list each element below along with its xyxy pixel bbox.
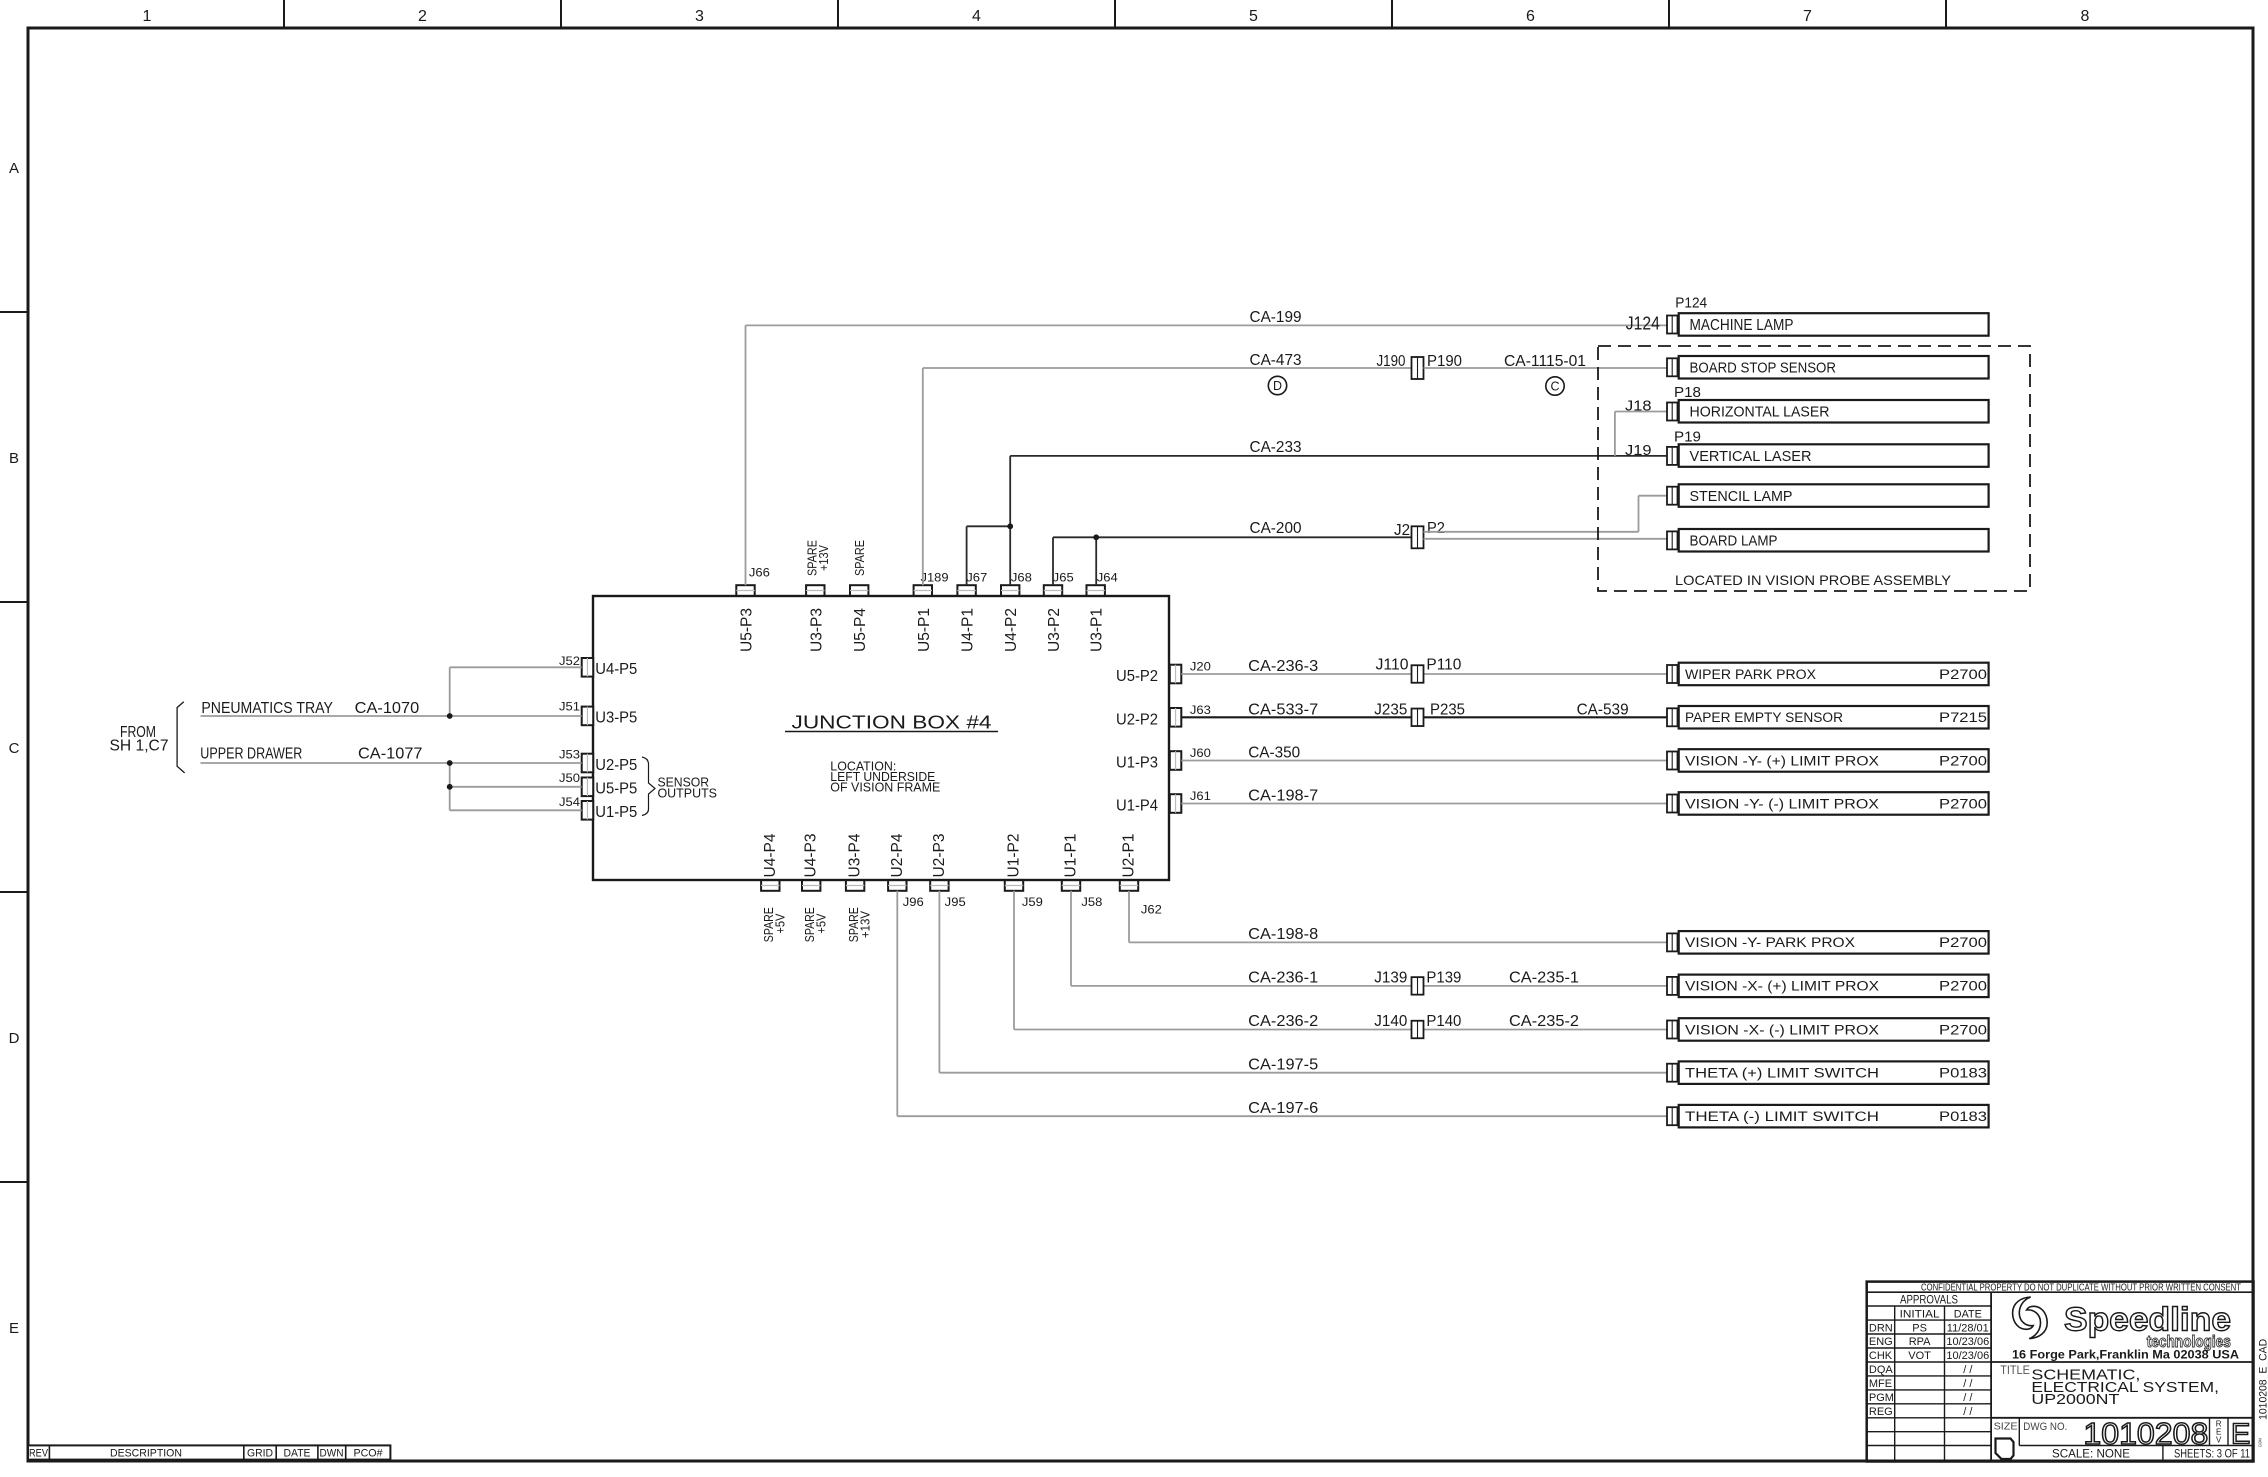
- svg-text:P139: P139: [1426, 970, 1461, 987]
- svg-text:4: 4: [972, 8, 981, 25]
- svg-text:P2: P2: [1427, 520, 1445, 537]
- label SENSOR OUTPUTS: [658, 774, 718, 800]
- connector J110/P110: [1412, 665, 1424, 683]
- title area: [1991, 1362, 2253, 1408]
- svg-text:DWN: DWN: [320, 1447, 344, 1459]
- svg-text:P18: P18: [1674, 384, 1701, 401]
- svg-text:J18: J18: [1625, 398, 1652, 415]
- svg-text:J51: J51: [559, 702, 580, 714]
- wire CA-197-6 (J96 to theta (-) limit switch): [897, 891, 1667, 1116]
- svg-text:CA-350: CA-350: [1248, 745, 1300, 762]
- svg-text:A: A: [9, 160, 19, 177]
- svg-text:J19: J19: [1625, 442, 1652, 459]
- label SPARE +5V (bottom 2): [802, 907, 828, 942]
- svg-text:CA-236-2: CA-236-2: [1248, 1013, 1318, 1030]
- svg-text:P2700: P2700: [1939, 753, 1987, 768]
- wire CA-233: [1010, 456, 1667, 585]
- svg-text:J96: J96: [903, 897, 924, 909]
- svg-text:P2700: P2700: [1939, 796, 1987, 811]
- svg-text:DESCRIPTION: DESCRIPTION: [110, 1447, 182, 1459]
- connector J54 (left, U1-P5): [582, 801, 638, 821]
- svg-text:P0183: P0183: [1939, 1066, 1987, 1081]
- size/dwg row: [1991, 1416, 2253, 1459]
- connector J189 (top, U5-P1): [914, 585, 933, 652]
- svg-text:SH 1,C7: SH 1,C7: [110, 737, 169, 754]
- connector J52 (left, U4-P5): [582, 658, 638, 678]
- svg-text:CA-473: CA-473: [1250, 352, 1302, 369]
- svg-text:VOT: VOT: [1908, 1350, 1931, 1362]
- connector J64 (top, U3-P1): [1087, 585, 1106, 652]
- svg-text:J235: J235: [1374, 702, 1407, 719]
- svg-text:J65: J65: [1053, 573, 1074, 585]
- svg-text:THETA (-) LIMIT SWITCH: THETA (-) LIMIT SWITCH: [1685, 1109, 1879, 1124]
- svg-text:CA-1077: CA-1077: [358, 746, 423, 763]
- speedline logo: [2013, 1297, 2231, 1351]
- device box VISION -X- (+) LIMIT PROX: [1667, 975, 1989, 998]
- svg-text:11/28/01: 11/28/01: [1947, 1322, 1989, 1334]
- svg-text:BOARD LAMP: BOARD LAMP: [1690, 533, 1778, 550]
- svg-text:U3-P4: U3-P4: [847, 833, 864, 877]
- svg-text:U1-P4: U1-P4: [1116, 798, 1158, 815]
- connector J190/P190: [1412, 357, 1424, 379]
- connector J58 (bottom, U1-P1): [1062, 833, 1080, 890]
- svg-text:ENG: ENG: [1869, 1336, 1893, 1348]
- approvals table: [1867, 1292, 1991, 1461]
- svg-text:VISION -Y- (-) LIMIT PROX: VISION -Y- (-) LIMIT PROX: [1685, 796, 1879, 811]
- svg-text:LOCATED IN VISION PROBE ASSEMB: LOCATED IN VISION PROBE ASSEMBLY: [1675, 572, 1952, 588]
- svg-text:INITIAL: INITIAL: [1900, 1309, 1940, 1321]
- svg-text:PNEUMATICS TRAY: PNEUMATICS TRAY: [201, 700, 333, 717]
- dashed box vision probe assembly: [1598, 346, 2030, 591]
- svg-text:VISION -Y- (+) LIMIT PROX: VISION -Y- (+) LIMIT PROX: [1685, 753, 1879, 768]
- svg-text:BOARD STOP SENSOR: BOARD STOP SENSOR: [1690, 360, 1837, 377]
- svg-text:J20: J20: [1190, 662, 1211, 674]
- connector SPARE +13V (top, U3-P3): [806, 585, 825, 652]
- device box BOARD STOP SENSOR: [1667, 356, 1989, 379]
- wire CA-198-8 (J62 to vision -Y- park prox): [1129, 891, 1667, 943]
- svg-text:V: V: [2216, 1436, 2222, 1445]
- svg-text:U3-P3: U3-P3: [808, 608, 825, 652]
- svg-text:J58: J58: [1081, 897, 1102, 909]
- svg-text:U5-P1: U5-P1: [916, 608, 933, 652]
- svg-text:U4-P4: U4-P4: [762, 833, 779, 877]
- svg-text:HORIZONTAL LASER: HORIZONTAL LASER: [1690, 404, 1830, 421]
- svg-text:+13V: +13V: [857, 911, 872, 938]
- svg-text:JUNCTION BOX #4: JUNCTION BOX #4: [792, 713, 992, 733]
- svg-text:10/23/06: 10/23/06: [1946, 1350, 1989, 1362]
- svg-text:CA-1115-01: CA-1115-01: [1504, 353, 1586, 370]
- svg-text:P2700: P2700: [1939, 667, 1987, 682]
- wire CA-236-2 (J59 to vision -X- (-) limit prox): [1014, 891, 1667, 1030]
- note FROM SH 1,C7: [110, 724, 169, 754]
- svg-text:GRID: GRID: [247, 1447, 273, 1459]
- svg-text:P2700: P2700: [1939, 979, 1987, 994]
- svg-text:U4-P2: U4-P2: [1003, 608, 1020, 652]
- svg-text:D: D: [1273, 379, 1282, 393]
- svg-text:OF VISION FRAME: OF VISION FRAME: [830, 779, 940, 794]
- connector J62 (bottom, U2-P1): [1120, 833, 1138, 890]
- svg-text:J64: J64: [1097, 573, 1119, 585]
- svg-text:DRN: DRN: [1869, 1322, 1893, 1334]
- connector J139/P139: [1412, 977, 1424, 995]
- junction box #4: [593, 596, 1169, 880]
- svg-text:B: B: [9, 450, 19, 467]
- wire CA-199: [746, 325, 1668, 585]
- svg-text:P19: P19: [1674, 429, 1701, 446]
- connector J20 (right, U5-P2): [1116, 665, 1181, 685]
- connector J140/P140: [1412, 1021, 1424, 1039]
- wire CA-236-1 (J58 to vision -X- (+) limit prox): [1071, 891, 1667, 986]
- svg-text:P235: P235: [1430, 702, 1465, 719]
- svg-text:PCO#: PCO#: [354, 1447, 384, 1459]
- svg-text:U4-P1: U4-P1: [960, 608, 977, 652]
- device box STENCIL LAMP: [1667, 484, 1989, 507]
- svg-text:SCALE: NONE: SCALE: NONE: [2052, 1447, 2130, 1461]
- svg-text:REV: REV: [29, 1447, 49, 1459]
- svg-text:U1-P2: U1-P2: [1006, 833, 1023, 877]
- connector SPARE +13V b (bottom, U3-P4): [846, 833, 864, 890]
- svg-text:3: 3: [695, 8, 704, 25]
- svg-text:7: 7: [1803, 8, 1812, 25]
- connector J95 (bottom, U2-P3): [930, 833, 948, 890]
- connector SPARE (top, U5-P4): [850, 585, 869, 652]
- svg-text:J62: J62: [1141, 905, 1162, 917]
- svg-text:CA-198-7: CA-198-7: [1248, 788, 1318, 805]
- junction dot: [447, 713, 453, 719]
- wire PNEUMATICS TRAY CA-1070: [201, 715, 582, 717]
- svg-text:J140: J140: [1374, 1013, 1407, 1030]
- svg-text:/ /: / /: [1963, 1364, 1973, 1376]
- svg-text:U3-P5: U3-P5: [595, 710, 637, 727]
- svg-text:P124: P124: [1675, 295, 1707, 312]
- device box MACHINE LAMP: [1667, 313, 1989, 336]
- svg-text:U2-P4: U2-P4: [889, 833, 906, 877]
- wire CA-350 (J60 to vision -Y- (+) limit prox): [1181, 760, 1667, 762]
- svg-text:APPROVALS: APPROVALS: [1900, 1295, 1958, 1307]
- device box PAPER EMPTY SENSOR: [1667, 706, 1989, 729]
- svg-text:PGM: PGM: [1869, 1392, 1894, 1404]
- svg-text:J139: J139: [1374, 970, 1407, 987]
- svg-text:+5V: +5V: [773, 913, 788, 933]
- svg-text:U3-P1: U3-P1: [1089, 608, 1106, 652]
- circled D: [1268, 376, 1286, 394]
- wire CA-473: [923, 368, 1412, 585]
- svg-text:E: E: [9, 1320, 19, 1337]
- svg-text:C: C: [1550, 380, 1559, 394]
- svg-text:J60: J60: [1190, 748, 1211, 760]
- svg-text:CA-236-3: CA-236-3: [1248, 658, 1318, 675]
- connector J61 (right, U1-P4): [1116, 794, 1181, 814]
- svg-text:CA-533-7: CA-533-7: [1248, 702, 1318, 719]
- svg-text:2: 2: [418, 8, 427, 25]
- svg-text:RPA: RPA: [1909, 1336, 1931, 1348]
- svg-text:J190: J190: [1377, 353, 1406, 370]
- connector J2/P2: [1412, 526, 1424, 548]
- svg-text:CADK4: CADK4: [2258, 1438, 2263, 1447]
- wire CA-1115-01: [1424, 367, 1668, 369]
- svg-text:P2700: P2700: [1939, 1022, 1987, 1037]
- svg-text:U2-P3: U2-P3: [931, 833, 948, 877]
- wire J18: [1615, 412, 1667, 456]
- wire UPPER DRAWER CA-1077: [201, 762, 582, 764]
- svg-text:P7215: P7215: [1939, 710, 1987, 725]
- svg-text:UPPER DRAWER: UPPER DRAWER: [200, 746, 302, 763]
- scale/sheets row: [2019, 1446, 2253, 1462]
- connector J50 (left, U5-P5): [582, 778, 638, 798]
- svg-text:U1-P3: U1-P3: [1116, 755, 1158, 772]
- device box VISION -Y- (+) LIMIT PROX: [1667, 749, 1989, 772]
- svg-text:P140: P140: [1426, 1013, 1461, 1030]
- wire CA-236-3 (J20 to wiper park prox): [1181, 673, 1667, 675]
- device box VISION -Y- PARK PROX: [1667, 931, 1989, 954]
- wire to board lamp: [1424, 538, 1668, 540]
- svg-text:P110: P110: [1426, 657, 1461, 674]
- svg-text:P0183: P0183: [1939, 1109, 1987, 1124]
- svg-text:C: C: [9, 740, 20, 757]
- svg-text:/ /: / /: [1963, 1378, 1973, 1390]
- svg-text:UP2000NT: UP2000NT: [2031, 1391, 2119, 1408]
- svg-text:J59: J59: [1022, 897, 1043, 909]
- svg-text:CA-233: CA-233: [1250, 439, 1302, 456]
- device box WIPER PARK PROX: [1667, 663, 1989, 686]
- svg-text:MFE: MFE: [1869, 1378, 1892, 1390]
- svg-text:P2700: P2700: [1939, 935, 1987, 950]
- svg-text:DQA: DQA: [1869, 1364, 1894, 1376]
- svg-text:OUTPUTS: OUTPUTS: [658, 786, 718, 801]
- junction dot: [1093, 534, 1099, 540]
- wire CA-200: [1053, 537, 1411, 585]
- svg-text:J68: J68: [1011, 573, 1032, 585]
- svg-text:5: 5: [1249, 8, 1258, 25]
- svg-text:REG: REG: [1869, 1406, 1893, 1418]
- svg-text:J110: J110: [1376, 657, 1409, 674]
- wire J52 branch: [450, 666, 582, 668]
- connector J235/P235: [1412, 709, 1424, 727]
- svg-text:U2-P5: U2-P5: [595, 757, 637, 774]
- svg-text:U1-P5: U1-P5: [595, 804, 637, 821]
- device box BOARD LAMP: [1667, 529, 1989, 552]
- svg-text:CONFIDENTIAL PROPERTY DO NOT D: CONFIDENTIAL PROPERTY DO NOT DUPLICATE W…: [1921, 1283, 2241, 1294]
- wire CA-198-7 (J61 to vision -Y- (-) limit prox): [1181, 803, 1667, 805]
- svg-text:CA-197-6: CA-197-6: [1248, 1100, 1318, 1117]
- svg-text:J67: J67: [966, 573, 987, 585]
- device box HORIZONTAL LASER: [1667, 400, 1989, 423]
- svg-text:1010208_E_CAD: 1010208_E_CAD: [2258, 1339, 2268, 1420]
- svg-text:U5-P3: U5-P3: [739, 608, 756, 652]
- svg-text:16 Forge Park,Franklin Ma 0203: 16 Forge Park,Franklin Ma 02038 USA: [2012, 1348, 2239, 1362]
- svg-text:VERTICAL LASER: VERTICAL LASER: [1690, 448, 1812, 465]
- connector J51 (left, U3-P5): [582, 707, 638, 727]
- svg-text:SHEETS: 3 OF 11: SHEETS: 3 OF 11: [2174, 1449, 2250, 1461]
- svg-text:J124: J124: [1626, 313, 1660, 333]
- svg-text:U4-P5: U4-P5: [595, 661, 637, 678]
- device box THETA (-) LIMIT SWITCH: [1667, 1105, 1989, 1128]
- svg-text:U2-P1: U2-P1: [1121, 833, 1138, 877]
- svg-text:U5-P4: U5-P4: [852, 608, 869, 652]
- svg-text:J50: J50: [559, 773, 580, 785]
- junction dot: [447, 784, 453, 790]
- connector SPARE +5V (bottom, U4-P4): [761, 833, 779, 890]
- svg-text:U5-P5: U5-P5: [595, 781, 637, 798]
- svg-text:DWG NO.: DWG NO.: [2023, 1421, 2067, 1433]
- wire J50/J54 branch: [449, 763, 451, 810]
- svg-text:CA-1070: CA-1070: [355, 700, 420, 717]
- wire J67 branch: [967, 526, 1011, 585]
- svg-text:STENCIL LAMP: STENCIL LAMP: [1690, 488, 1793, 505]
- connector J63 (right, U2-P2): [1116, 708, 1181, 728]
- svg-text:CA-235-2: CA-235-2: [1509, 1013, 1579, 1030]
- svg-text:MACHINE LAMP: MACHINE LAMP: [1690, 317, 1794, 334]
- device box VISION -X- (-) LIMIT PROX: [1667, 1018, 1989, 1040]
- svg-text:CHK: CHK: [1869, 1350, 1893, 1362]
- title block: [1867, 1282, 2254, 1462]
- connector J53 (left, U2-P5): [582, 754, 638, 774]
- device box VISION -Y- (-) LIMIT PROX: [1667, 792, 1989, 815]
- svg-text:PS: PS: [1912, 1322, 1927, 1334]
- circled C: [1546, 377, 1564, 395]
- svg-text:J53: J53: [559, 750, 580, 762]
- wire J64 branch: [1095, 537, 1097, 585]
- junction dot: [1007, 523, 1013, 529]
- svg-text:6: 6: [1526, 8, 1535, 25]
- svg-text:+5V: +5V: [813, 913, 828, 933]
- revision strip: [28, 1445, 390, 1459]
- device box THETA (+) LIMIT SWITCH: [1667, 1061, 1989, 1084]
- device box VERTICAL LASER: [1667, 444, 1989, 467]
- label SPARE +5V (bottom 1): [761, 907, 787, 942]
- label SPARE +13V (top): [804, 540, 831, 576]
- connector J96 (bottom, U2-P4): [888, 833, 906, 890]
- svg-text:J63: J63: [1190, 705, 1211, 717]
- svg-text:CA-199: CA-199: [1250, 309, 1302, 326]
- svg-text:THETA (+) LIMIT SWITCH: THETA (+) LIMIT SWITCH: [1685, 1066, 1879, 1081]
- svg-text:CA-200: CA-200: [1250, 520, 1302, 537]
- svg-text:SIZE: SIZE: [1994, 1420, 2018, 1432]
- svg-text:1: 1: [143, 8, 152, 25]
- junction dot: [447, 760, 453, 766]
- svg-text:J2: J2: [1394, 522, 1410, 539]
- svg-text:CA-539: CA-539: [1577, 702, 1629, 719]
- connector J66 (top, U5-P3): [736, 585, 755, 652]
- svg-text:J189: J189: [921, 573, 949, 585]
- svg-text:DATE: DATE: [284, 1447, 311, 1459]
- svg-text:U1-P1: U1-P1: [1063, 833, 1080, 877]
- svg-text:U4-P3: U4-P3: [803, 833, 820, 877]
- label SPARE +13V (bottom 3): [846, 907, 872, 942]
- connector J68 (top, U4-P2): [1001, 585, 1020, 652]
- connector J60 (right, U1-P3): [1116, 751, 1181, 771]
- svg-text:J52: J52: [559, 656, 580, 668]
- connector J65 (top, U3-P2): [1044, 585, 1063, 652]
- svg-text:CA-236-1: CA-236-1: [1248, 970, 1318, 987]
- svg-text:J95: J95: [945, 897, 966, 909]
- svg-text:SPARE: SPARE: [852, 540, 867, 576]
- svg-text:J61: J61: [1190, 791, 1211, 803]
- wire CA-197-5 (J95 to theta (+) limit switch): [939, 891, 1667, 1073]
- brace sensor outputs: [642, 757, 655, 816]
- svg-text:J66: J66: [749, 568, 770, 580]
- connector J67 (top, U4-P1): [957, 585, 976, 652]
- left bracket: [177, 702, 185, 773]
- svg-text:CA-198-8: CA-198-8: [1248, 926, 1318, 943]
- svg-text:U5-P2: U5-P2: [1116, 668, 1158, 685]
- svg-text:CA-197-5: CA-197-5: [1248, 1057, 1318, 1074]
- svg-text:10/23/06: 10/23/06: [1946, 1336, 1989, 1348]
- wire CA-533-7 (J63 to paper empty sensor): [1181, 716, 1667, 718]
- svg-text:WIPER PARK PROX: WIPER PARK PROX: [1685, 667, 1816, 682]
- svg-text:TITLE: TITLE: [2000, 1365, 2030, 1377]
- svg-text:VISION -X- (-) LIMIT PROX: VISION -X- (-) LIMIT PROX: [1685, 1022, 1879, 1037]
- svg-text:DATE: DATE: [1954, 1309, 1982, 1321]
- svg-text:/ /: / /: [1963, 1406, 1973, 1418]
- svg-text:U3-P2: U3-P2: [1046, 608, 1063, 652]
- svg-text:PAPER EMPTY SENSOR: PAPER EMPTY SENSOR: [1685, 710, 1843, 725]
- svg-text:D: D: [9, 1030, 20, 1047]
- svg-text:CA-235-1: CA-235-1: [1509, 970, 1579, 987]
- svg-text:U2-P2: U2-P2: [1116, 711, 1158, 728]
- svg-text:+13V: +13V: [816, 545, 831, 571]
- connector J59 (bottom, U1-P2): [1005, 833, 1023, 890]
- svg-text:8: 8: [2081, 8, 2090, 25]
- svg-text:/ /: / /: [1963, 1392, 1973, 1404]
- connector SPARE +5V b (bottom, U4-P3): [802, 833, 820, 890]
- svg-text:VISION -Y- PARK PROX: VISION -Y- PARK PROX: [1685, 935, 1855, 950]
- svg-text:VISION -X- (+) LIMIT PROX: VISION -X- (+) LIMIT PROX: [1685, 979, 1879, 994]
- svg-text:J54: J54: [559, 797, 581, 809]
- wire to stencil lamp: [1424, 496, 1668, 532]
